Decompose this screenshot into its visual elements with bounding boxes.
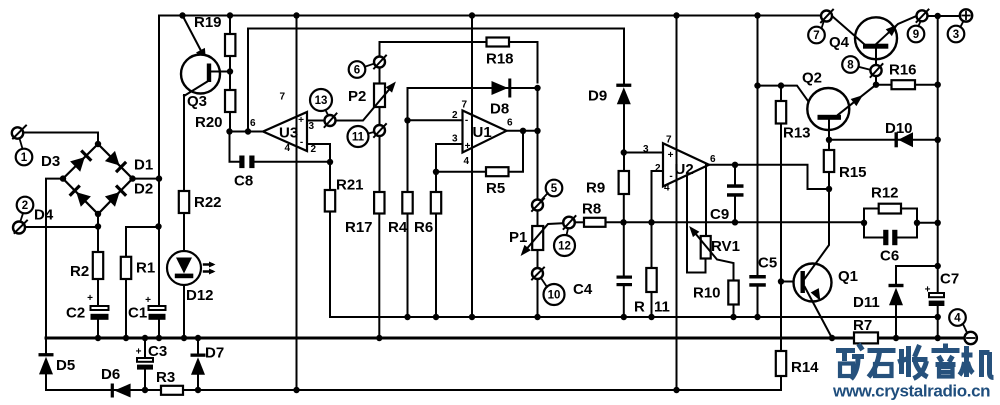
wire long feedback row y222 [624, 221, 865, 223]
wire D5 column [45, 339, 47, 390]
node U2 area junctions [620, 149, 738, 225]
capacitor C8 [239, 156, 244, 169]
svg-text:12: 12 [558, 241, 571, 253]
resistor R21 [329, 162, 331, 190]
diode D4 [69, 184, 91, 206]
node label 12 [554, 235, 575, 256]
wire R1 branch [126, 227, 159, 257]
watermark logo [836, 344, 994, 380]
wire U3 output [230, 131, 264, 133]
svg-text:R21: R21 [336, 177, 364, 194]
resistor R20 [225, 90, 235, 112]
svg-text:R14: R14 [791, 359, 819, 376]
resistor R1 [121, 257, 131, 279]
diode D1 [105, 151, 127, 173]
capacitor C6 [883, 230, 888, 245]
wire bridge diamond arms [63, 144, 133, 214]
diode D2 [105, 184, 127, 206]
wire C5 column [757, 16, 759, 318]
wire rail B (negative bus) [46, 337, 965, 340]
op-amp U2 [663, 143, 709, 186]
resistor R10 [728, 281, 738, 305]
svg-text:+: + [298, 115, 304, 126]
diode D10 [895, 132, 914, 147]
svg-text:R12: R12 [871, 185, 899, 202]
svg-text:C4: C4 [573, 281, 593, 298]
terminal 11 [374, 125, 385, 136]
resistor R17 [374, 192, 384, 214]
wire U1 pin3 [436, 144, 463, 172]
svg-text:R20: R20 [195, 114, 223, 131]
resistor R22 [179, 191, 189, 213]
svg-text:R9: R9 [586, 180, 605, 197]
svg-text:2: 2 [311, 144, 317, 155]
node label 1 [16, 149, 33, 166]
wire RV1 top [705, 165, 707, 236]
svg-text:D2: D2 [134, 181, 153, 198]
svg-text:+: + [925, 285, 931, 296]
wire D12 to rail B [183, 285, 185, 338]
wire U2 pin2 [652, 171, 664, 222]
svg-text:8: 8 [847, 60, 854, 72]
node rail C junctions [142, 387, 680, 393]
wire rail A (0V sense) [330, 316, 938, 318]
wire R12C6 to right column [917, 222, 938, 224]
wire U2 output row [709, 165, 829, 189]
svg-text:D3: D3 [41, 153, 60, 170]
svg-text:D4: D4 [34, 207, 54, 224]
svg-text:7: 7 [280, 92, 286, 103]
svg-text:+: + [668, 150, 674, 161]
wire P2 wiper [336, 86, 393, 121]
svg-text:D8: D8 [490, 101, 509, 118]
node bridge vertices [60, 141, 162, 230]
svg-text:U2: U2 [675, 161, 694, 178]
svg-text:-: - [465, 115, 468, 126]
node U1 area junctions [404, 85, 540, 175]
potentiometer P2 [379, 68, 381, 84]
LED D12 [167, 251, 201, 285]
svg-text:D12: D12 [186, 287, 214, 304]
svg-text:1: 1 [21, 152, 28, 164]
diode D9 [616, 84, 631, 105]
svg-text:R7: R7 [853, 317, 872, 334]
capacitor C1 [149, 306, 166, 310]
svg-text:R5: R5 [486, 180, 505, 197]
svg-text:11: 11 [654, 299, 670, 316]
svg-text:2: 2 [452, 110, 458, 121]
svg-text:www.crystalradio.cn: www.crystalradio.cn [832, 382, 990, 401]
transistor Q4 [855, 17, 897, 59]
wire U3 pin3 [307, 120, 325, 122]
wire R5 row [436, 131, 523, 172]
svg-text:7: 7 [666, 135, 672, 146]
wire terminal 9 to +output [928, 15, 960, 17]
resistor R8 [575, 221, 584, 223]
resistor R15 [824, 150, 834, 172]
diode D8 [492, 79, 512, 98]
svg-text:D10: D10 [885, 120, 913, 137]
node label 4 [949, 309, 966, 326]
terminal 10 [532, 268, 543, 279]
svg-text:Q3: Q3 [187, 93, 207, 110]
svg-text:C6: C6 [880, 248, 899, 265]
svg-text:D11: D11 [853, 294, 880, 311]
svg-text:C9: C9 [710, 206, 729, 223]
capacitor C3 [144, 340, 146, 391]
svg-text:R16: R16 [889, 62, 917, 79]
diode D5 [39, 353, 54, 374]
svg-text:+: + [465, 141, 471, 152]
node label 10 [544, 284, 565, 305]
svg-text:4: 4 [285, 143, 291, 154]
wire terminal 2 to bridge bottom column [26, 226, 99, 228]
svg-text:D5: D5 [56, 357, 75, 374]
svg-text:5: 5 [551, 183, 558, 195]
capacitor C4 [617, 276, 633, 279]
wire bridge right vertex to +column [133, 178, 160, 180]
node rail A junctions [404, 314, 941, 320]
resistor R14 [776, 351, 786, 376]
wire terminal 8 to R16 node [875, 76, 877, 85]
svg-text:R3: R3 [156, 369, 175, 386]
wire rail C (bottom bus) [46, 389, 781, 391]
node label 6 [349, 61, 366, 78]
svg-text:R6: R6 [414, 219, 433, 236]
op-amp U1 [463, 111, 507, 153]
svg-text:6: 6 [250, 118, 256, 129]
resistor R16 [876, 84, 892, 86]
wire D8 row [408, 87, 538, 89]
svg-text:P1: P1 [509, 229, 527, 246]
svg-text:6: 6 [354, 65, 360, 77]
resistor R5 [486, 167, 509, 176]
wire D9 column top [623, 29, 625, 172]
svg-text:3: 3 [452, 134, 458, 145]
wire U2 pin3 row [624, 152, 663, 154]
svg-text:R19: R19 [194, 14, 222, 31]
svg-text:R2: R2 [70, 263, 89, 280]
resistor R3 [161, 386, 183, 395]
terminal 2 [13, 222, 25, 234]
terminal 9 [917, 10, 928, 21]
svg-text:3: 3 [953, 29, 959, 41]
wire top supply rail [159, 15, 821, 17]
svg-text:D9: D9 [588, 88, 607, 105]
resistor R9 [619, 171, 629, 194]
node label 5 [546, 180, 563, 197]
wire bridge left vertex to rail B [46, 179, 63, 338]
svg-text:+: + [136, 347, 142, 358]
svg-text:R13: R13 [783, 125, 811, 142]
wire R22 to D12 [183, 213, 185, 252]
diode D7 [197, 340, 199, 391]
wire left vertical from top rail [158, 16, 160, 307]
wire R2 to C2 [97, 279, 99, 306]
node top rail junctions [179, 12, 941, 19]
svg-text:C1: C1 [128, 305, 147, 322]
diode D3 [70, 149, 92, 171]
svg-text:2: 2 [655, 163, 661, 174]
terminal 7 [821, 11, 832, 22]
wire RV1 bottom loop to U2 [687, 176, 706, 273]
resistor R6 [435, 172, 437, 192]
svg-text:C2: C2 [66, 305, 85, 322]
op-amp U3 [263, 112, 307, 151]
wire U1 pin6 [507, 130, 538, 132]
node label 8 [842, 56, 859, 73]
wire R1 to rail B [125, 279, 127, 338]
svg-text:4: 4 [464, 156, 470, 167]
svg-text:3: 3 [643, 144, 649, 155]
svg-text:R22: R22 [194, 194, 222, 211]
svg-text:D7: D7 [205, 345, 224, 362]
terminal 13 [325, 115, 336, 126]
transistor Q3 emitter wire [183, 16, 210, 67]
svg-text:-: - [669, 171, 672, 182]
capacitor C2 [91, 306, 109, 310]
wire D10 row [829, 139, 938, 141]
resistor R12 parallel C6 [864, 209, 917, 238]
svg-text:11: 11 [352, 132, 365, 144]
resistor R11 [651, 222, 653, 268]
wire Q2 base to R15 [828, 120, 830, 150]
terminal 6 [374, 57, 385, 68]
svg-text:C3: C3 [148, 343, 167, 360]
transistor Q1 [781, 281, 801, 283]
svg-text:6: 6 [507, 118, 513, 129]
svg-text:4: 4 [664, 183, 670, 194]
capacitor C7 [929, 293, 944, 297]
svg-text:R1: R1 [136, 260, 155, 277]
wire terminal 11 to R17 [379, 136, 381, 192]
svg-text:9: 9 [913, 29, 919, 41]
svg-text:R10: R10 [693, 285, 721, 302]
node label 11 [348, 126, 369, 147]
diode D6 [111, 384, 131, 398]
terminal 12 [563, 217, 575, 229]
wire bridge bottom column down [97, 214, 99, 252]
wire C8 branch [230, 132, 331, 162]
svg-text:R18: R18 [486, 51, 514, 68]
svg-text:Q2: Q2 [802, 70, 822, 87]
svg-text:D6: D6 [101, 366, 120, 383]
wire Q3 collector to R22 [183, 95, 185, 191]
resistor R4 [402, 192, 412, 214]
svg-text:7: 7 [462, 100, 468, 111]
wire supply branch to R13/Q2 [758, 86, 819, 115]
svg-text:C5: C5 [758, 255, 777, 272]
wire R18 row [380, 42, 538, 83]
wire terminal 10 to rail A [537, 279, 539, 317]
resistor R7 [854, 332, 878, 343]
svg-text:10: 10 [548, 290, 561, 302]
svg-text:U1: U1 [473, 124, 492, 141]
capacitor C9 [734, 165, 736, 223]
node output stage junctions [754, 82, 941, 285]
transistor Q3 [181, 55, 220, 94]
svg-text:R8: R8 [582, 201, 601, 218]
diode D11 branch [896, 266, 938, 338]
terminal 8 [870, 65, 881, 76]
svg-text:6: 6 [710, 154, 716, 165]
wire x537 column [537, 88, 539, 200]
wire U1 pin2 row [408, 88, 463, 192]
svg-text:13: 13 [315, 95, 328, 107]
terminal 4 (-) [965, 332, 977, 344]
svg-text:R: R [634, 299, 645, 316]
capacitor C5 [749, 275, 766, 279]
transistor Q2 [807, 88, 849, 130]
svg-text:+: + [87, 293, 93, 304]
node label 3 [948, 26, 965, 43]
wire Q4 base to terminal 8 [875, 49, 877, 65]
potentiometer P1 [537, 211, 539, 227]
node Q3 base / U3 output junctions [226, 68, 333, 165]
node rail B junctions [95, 335, 941, 341]
node label 13 [310, 89, 332, 111]
wire P1 wiper [524, 223, 564, 252]
resistor R2 [93, 252, 103, 279]
svg-text:P2: P2 [348, 88, 366, 105]
svg-text:R4: R4 [388, 219, 408, 236]
node label 9 [908, 26, 925, 43]
svg-text:D1: D1 [134, 157, 153, 174]
wire x937 right column [937, 16, 939, 338]
wire U3 pin2 riser [307, 144, 330, 162]
svg-text:C7: C7 [940, 271, 959, 288]
wire C1 column lower [158, 320, 160, 338]
terminal 3 (+) [960, 9, 972, 21]
node label 7 [808, 27, 825, 44]
svg-text:2: 2 [22, 200, 28, 212]
svg-text:7: 7 [813, 30, 819, 42]
wire C2 to rail B [97, 320, 99, 338]
terminal 1 [12, 127, 23, 138]
trimmer RV1 [701, 236, 711, 259]
svg-text:Q1: Q1 [838, 268, 858, 285]
svg-text:U3: U3 [279, 125, 298, 142]
svg-text:C8: C8 [234, 173, 253, 190]
resistor R19 [229, 16, 231, 35]
svg-text:3: 3 [309, 121, 315, 132]
wire terminal 1 to bridge top [24, 133, 99, 145]
svg-text:RV1: RV1 [711, 238, 740, 255]
resistor R18 [487, 38, 510, 47]
svg-text:Q4: Q4 [829, 34, 850, 51]
svg-text:4: 4 [954, 313, 961, 325]
svg-text:R17: R17 [345, 219, 373, 236]
resistor R13 [780, 86, 782, 101]
wire feedback riser x248 [248, 29, 624, 132]
svg-text:-: - [300, 137, 303, 148]
terminal 5 [532, 200, 543, 211]
node label 2 [17, 197, 34, 214]
wire RV1 wiper arrow [693, 230, 734, 281]
svg-text:R15: R15 [839, 164, 867, 181]
